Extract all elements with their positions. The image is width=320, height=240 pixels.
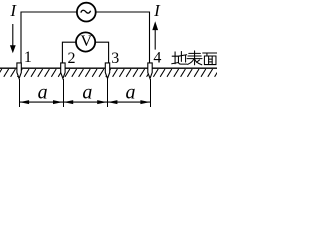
svg-text:a: a — [82, 81, 92, 103]
svg-text:a: a — [126, 81, 136, 103]
svg-text:a: a — [38, 81, 48, 103]
svg-text:V: V — [81, 33, 93, 50]
svg-text:3: 3 — [111, 50, 119, 67]
svg-text:2: 2 — [68, 50, 76, 67]
svg-text:4: 4 — [153, 50, 161, 67]
svg-text:1: 1 — [24, 49, 32, 66]
